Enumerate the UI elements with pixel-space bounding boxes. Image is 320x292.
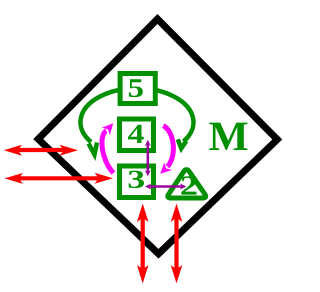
label 4 (128, 125, 144, 143)
purple arrow 4-3 (145, 140, 151, 177)
big green cycle arc (80, 88, 193, 154)
square 4 (120, 119, 154, 151)
red arrow bottom-left vertical (137, 204, 149, 284)
magenta rotation arrow left (102, 123, 114, 173)
red arrow bottom-right vertical (171, 204, 183, 284)
red arrow lower-left (5, 173, 114, 184)
triangle 2 (168, 170, 206, 198)
label 2 (181, 176, 196, 194)
label 5 (129, 79, 143, 97)
red arrow upper-left (4, 145, 78, 156)
purple arrow 3-2 (145, 184, 186, 190)
label 3 (129, 171, 144, 188)
label M (209, 123, 247, 150)
magenta rotation arrow right (160, 126, 173, 174)
square 3 (120, 166, 154, 198)
diamond border (38, 19, 277, 254)
square 5 (120, 74, 155, 104)
